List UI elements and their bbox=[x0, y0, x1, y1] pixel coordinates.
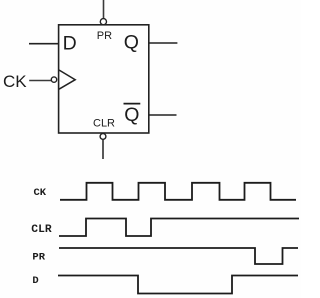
svg-text:Q: Q bbox=[124, 104, 139, 126]
svg-text:CK: CK bbox=[34, 187, 47, 199]
svg-text:CLR: CLR bbox=[31, 224, 52, 236]
svg-text:D: D bbox=[32, 275, 38, 287]
svg-text:CLR: CLR bbox=[93, 117, 115, 129]
svg-text:D: D bbox=[63, 33, 77, 55]
svg-text:Q: Q bbox=[124, 32, 139, 54]
svg-text:PR: PR bbox=[97, 30, 112, 42]
svg-text:PR: PR bbox=[32, 252, 45, 264]
svg-text:CK: CK bbox=[3, 72, 27, 91]
